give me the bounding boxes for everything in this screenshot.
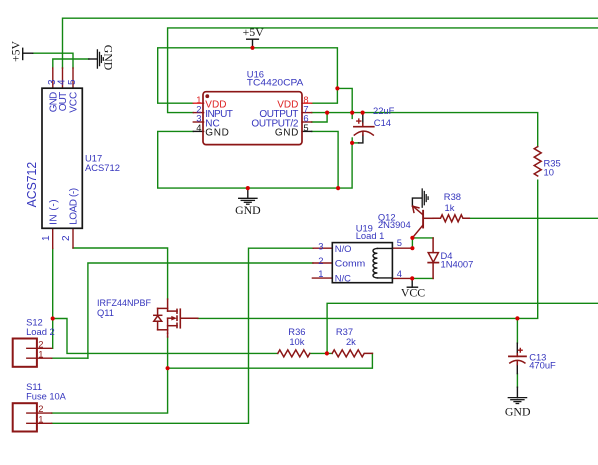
svg-text:N/C: N/C xyxy=(335,273,351,284)
svg-text:GND: GND xyxy=(205,128,229,139)
svg-text:2N3904: 2N3904 xyxy=(378,219,411,230)
svg-text:Fuse 10A: Fuse 10A xyxy=(26,391,67,402)
svg-text:22uF: 22uF xyxy=(373,105,395,116)
svg-text:470uF: 470uF xyxy=(529,359,556,370)
svg-text:1N4007: 1N4007 xyxy=(441,258,474,269)
svg-text:Q11: Q11 xyxy=(97,307,114,318)
svg-text:TC4420CPA: TC4420CPA xyxy=(247,77,304,88)
svg-text:Load 1: Load 1 xyxy=(356,230,385,241)
svg-text:+5V: +5V xyxy=(9,40,23,62)
svg-text:GND: GND xyxy=(102,45,116,71)
svg-text:GND: GND xyxy=(235,203,261,217)
svg-text:1: 1 xyxy=(38,413,43,424)
svg-text:4: 4 xyxy=(196,122,201,133)
svg-text:ACS712: ACS712 xyxy=(25,162,39,208)
svg-text:N/O: N/O xyxy=(335,243,352,254)
svg-text:VCC: VCC xyxy=(401,285,425,299)
svg-text:OUT: OUT xyxy=(58,92,69,112)
svg-text:10k: 10k xyxy=(289,336,304,347)
svg-text:2k: 2k xyxy=(346,336,356,347)
svg-text:1: 1 xyxy=(318,268,323,279)
svg-text:2: 2 xyxy=(318,255,323,266)
svg-text:1: 1 xyxy=(38,348,43,359)
svg-text:4: 4 xyxy=(397,268,402,279)
svg-text:VCC: VCC xyxy=(69,92,80,113)
svg-text:GND: GND xyxy=(505,405,531,419)
svg-text:Comm: Comm xyxy=(335,258,366,269)
svg-text:C14: C14 xyxy=(374,117,391,128)
svg-text:1k: 1k xyxy=(445,202,455,213)
svg-text:5: 5 xyxy=(303,122,308,133)
svg-text:3: 3 xyxy=(318,240,323,251)
svg-text:+5V: +5V xyxy=(243,25,265,39)
svg-text:IN (-): IN (-) xyxy=(49,199,60,225)
svg-text:Load 2: Load 2 xyxy=(26,326,55,337)
svg-text:5: 5 xyxy=(67,79,78,85)
svg-text:2: 2 xyxy=(61,235,72,241)
svg-text:1: 1 xyxy=(41,235,52,241)
svg-text:ACS712: ACS712 xyxy=(85,162,120,173)
svg-text:GND: GND xyxy=(275,128,299,139)
svg-text:5: 5 xyxy=(397,237,402,248)
svg-text:LOAD (-): LOAD (-) xyxy=(69,188,80,225)
svg-text:10: 10 xyxy=(544,167,554,178)
svg-text:4: 4 xyxy=(57,79,68,85)
svg-text:R38: R38 xyxy=(444,191,461,202)
